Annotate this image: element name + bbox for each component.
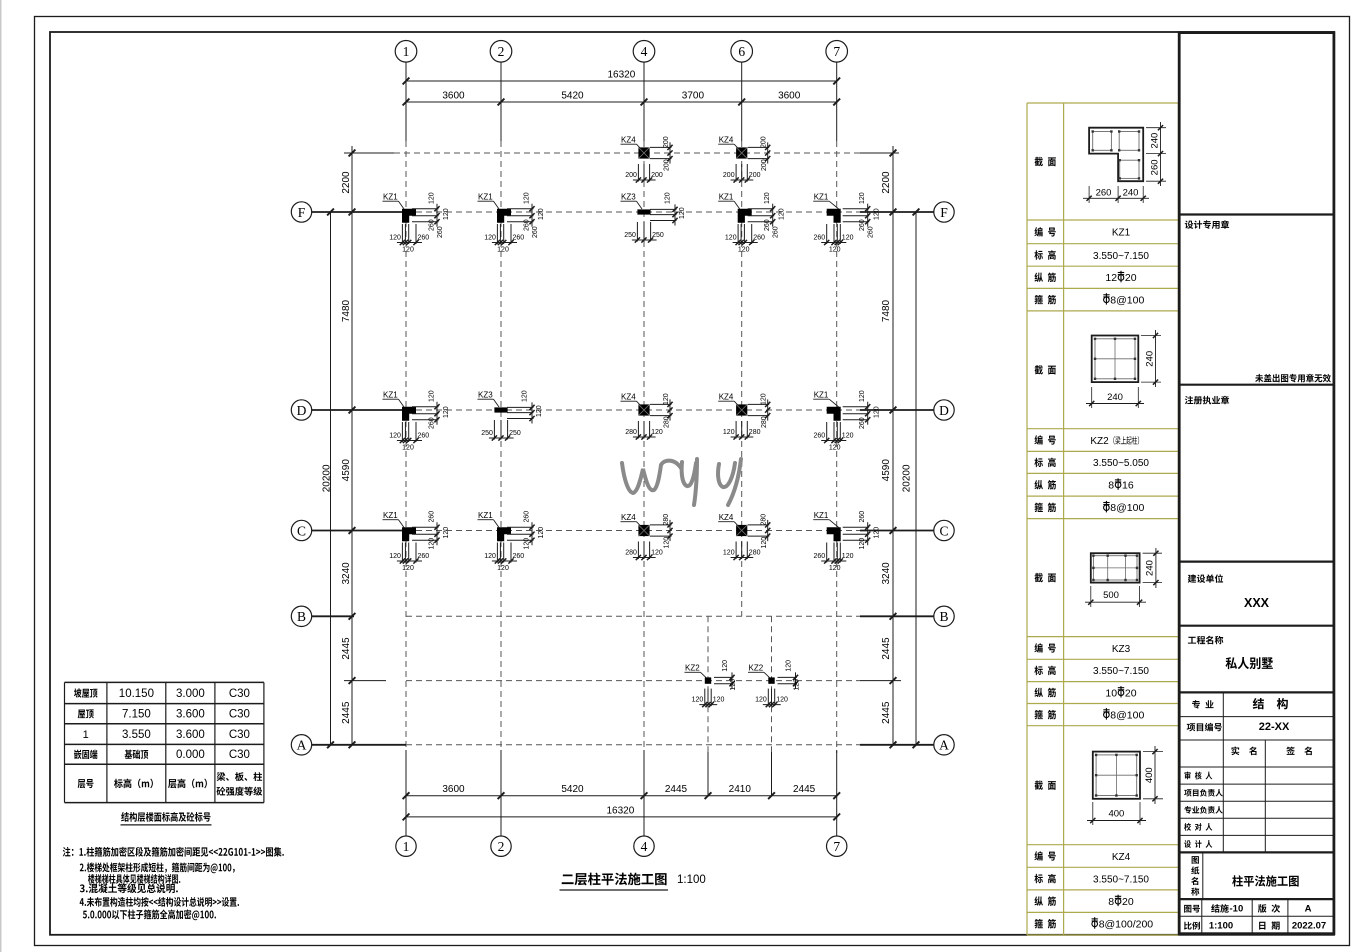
svg-text:120: 120 bbox=[794, 679, 801, 691]
svg-text:120: 120 bbox=[522, 390, 529, 402]
svg-text:260: 260 bbox=[859, 511, 866, 523]
label 审核人 bbox=[1185, 772, 1213, 780]
svg-text:KZ1: KZ1 bbox=[383, 193, 398, 202]
svg-text:KZ2: KZ2 bbox=[1090, 436, 1109, 447]
svg-text:120: 120 bbox=[829, 565, 841, 572]
svg-text:2445: 2445 bbox=[793, 784, 816, 795]
levels table header row bbox=[78, 772, 263, 796]
axis bubble D left bbox=[291, 400, 311, 420]
svg-text:1: 1 bbox=[403, 44, 410, 59]
svg-text:120: 120 bbox=[402, 445, 414, 452]
svg-text:120: 120 bbox=[484, 553, 496, 560]
svg-text:20: 20 bbox=[1125, 272, 1137, 284]
svg-text:260: 260 bbox=[1096, 187, 1112, 198]
column KZ4 top/6 bbox=[718, 136, 770, 183]
axis bubble A right bbox=[934, 735, 954, 755]
label 项目负责人 bbox=[1184, 789, 1223, 797]
svg-text:2022.07: 2022.07 bbox=[1292, 921, 1326, 932]
svg-text:120: 120 bbox=[859, 192, 866, 204]
svg-text:1:100: 1:100 bbox=[677, 874, 706, 886]
svg-text:3.000: 3.000 bbox=[176, 688, 205, 700]
svg-text:260: 260 bbox=[859, 417, 866, 429]
note line 5 bbox=[80, 897, 239, 907]
svg-text:260: 260 bbox=[429, 417, 436, 429]
svg-text:240: 240 bbox=[1145, 560, 1156, 576]
svg-text:KZ3: KZ3 bbox=[478, 391, 493, 400]
svg-text:2445: 2445 bbox=[881, 637, 892, 660]
svg-text:500: 500 bbox=[1103, 590, 1119, 601]
svg-text:KZ1: KZ1 bbox=[814, 511, 829, 520]
svg-text:C: C bbox=[297, 523, 306, 538]
label 日期 bbox=[1259, 921, 1280, 929]
svg-text:260: 260 bbox=[814, 553, 826, 560]
axis bubble 1 top bbox=[395, 41, 417, 63]
svg-text:C30: C30 bbox=[229, 729, 250, 741]
svg-text:280: 280 bbox=[663, 514, 670, 526]
levels table grid bbox=[65, 682, 264, 802]
column KZ2 row/right bbox=[748, 660, 801, 707]
svg-text:12: 12 bbox=[1105, 272, 1117, 284]
horizontal axis D line bbox=[312, 409, 934, 411]
column KZ4 C/6 bbox=[718, 513, 770, 560]
column KZ4 C/4 bbox=[621, 513, 673, 560]
vertical axis 6 line bbox=[741, 62, 743, 616]
watermark wyy bbox=[622, 459, 741, 505]
svg-text:280: 280 bbox=[749, 550, 761, 557]
label 图纸名称 vertical bbox=[1191, 856, 1199, 895]
svg-text:120: 120 bbox=[842, 553, 854, 560]
svg-text:3240: 3240 bbox=[341, 562, 352, 585]
svg-text:KZ1: KZ1 bbox=[383, 511, 398, 520]
levels table caption bbox=[121, 812, 212, 825]
svg-text:16320: 16320 bbox=[606, 805, 634, 816]
vertical axis 1 line bbox=[405, 62, 407, 836]
svg-text:120: 120 bbox=[651, 429, 663, 436]
svg-text:400: 400 bbox=[1144, 767, 1155, 783]
label 注册执业章 bbox=[1185, 396, 1229, 405]
svg-text:250: 250 bbox=[652, 232, 664, 239]
svg-text:120: 120 bbox=[829, 445, 841, 452]
top overall dimension 16320 bbox=[403, 70, 840, 85]
svg-text:KZ3: KZ3 bbox=[621, 193, 636, 202]
value 22-XX bbox=[1259, 721, 1290, 733]
svg-text:7: 7 bbox=[833, 839, 840, 854]
svg-text:3.550~7.150: 3.550~7.150 bbox=[1093, 666, 1149, 677]
svg-text:120: 120 bbox=[874, 208, 881, 220]
svg-text:C: C bbox=[939, 523, 948, 538]
svg-text:2200: 2200 bbox=[341, 171, 352, 194]
svg-text:KZ4: KZ4 bbox=[621, 393, 636, 402]
svg-text:4590: 4590 bbox=[341, 459, 352, 482]
svg-text:22-XX: 22-XX bbox=[1259, 721, 1290, 733]
svg-text:KZ2: KZ2 bbox=[749, 664, 764, 673]
levels table row 4 bbox=[74, 749, 250, 761]
value 私人别墅 bbox=[1226, 657, 1273, 669]
svg-text:120: 120 bbox=[443, 527, 450, 539]
column schedule grid bbox=[1027, 103, 1178, 935]
svg-text:KZ1: KZ1 bbox=[478, 511, 493, 520]
svg-text:260: 260 bbox=[532, 226, 539, 238]
section KZ1 (L-shape) bbox=[1083, 122, 1166, 203]
svg-text:4590: 4590 bbox=[881, 459, 892, 482]
value 1:100 bbox=[1209, 921, 1233, 932]
header 实名 bbox=[1231, 747, 1256, 756]
axis bubble 2 bottom bbox=[491, 836, 511, 856]
svg-text:120: 120 bbox=[389, 235, 401, 242]
svg-text:120: 120 bbox=[738, 247, 750, 254]
svg-text:A: A bbox=[297, 738, 307, 753]
value XXX bbox=[1244, 596, 1270, 610]
top segment dimension line bbox=[403, 91, 840, 106]
svg-text:2410: 2410 bbox=[729, 784, 752, 795]
svg-text:240: 240 bbox=[1123, 187, 1139, 198]
svg-text:260: 260 bbox=[429, 219, 436, 231]
svg-text:A: A bbox=[939, 738, 949, 753]
svg-text:KZ2: KZ2 bbox=[685, 664, 700, 673]
svg-text:KZ1: KZ1 bbox=[814, 193, 829, 202]
note line 6 bbox=[83, 909, 216, 920]
svg-text:260: 260 bbox=[429, 511, 436, 523]
title block thick dividers bbox=[1179, 215, 1334, 900]
svg-text:200: 200 bbox=[723, 172, 735, 179]
vertical axis line KZ2-left bbox=[707, 616, 709, 795]
svg-text:C30: C30 bbox=[229, 709, 250, 721]
svg-text:120: 120 bbox=[723, 550, 735, 557]
left screen edge strip bbox=[0, 0, 2, 952]
value 结构 bbox=[1253, 698, 1288, 709]
svg-text:260: 260 bbox=[524, 511, 531, 523]
schedule group 1 values bbox=[1093, 228, 1149, 307]
label 设计人 bbox=[1184, 840, 1212, 848]
svg-text:7480: 7480 bbox=[341, 299, 352, 322]
title block outer frame bbox=[1179, 33, 1334, 934]
label 建设单位 bbox=[1188, 574, 1223, 583]
svg-text:3.550~5.050: 3.550~5.050 bbox=[1093, 458, 1149, 469]
svg-text:240: 240 bbox=[1144, 351, 1155, 367]
svg-text:120: 120 bbox=[859, 390, 866, 402]
label 比例 bbox=[1184, 922, 1200, 930]
svg-text:250: 250 bbox=[481, 430, 493, 437]
svg-text:260: 260 bbox=[859, 219, 866, 231]
axis bubble C left bbox=[291, 520, 311, 540]
svg-text:120: 120 bbox=[524, 538, 531, 550]
column KZ1 D/1 bbox=[383, 390, 451, 451]
svg-text:7: 7 bbox=[833, 44, 840, 59]
axis bubble 4 top bbox=[633, 41, 655, 63]
svg-text:260: 260 bbox=[868, 226, 875, 238]
axis bubble D right bbox=[934, 400, 954, 420]
axis bubble F right bbox=[934, 202, 954, 222]
svg-text:8@100: 8@100 bbox=[1110, 502, 1144, 514]
value 结施-10 bbox=[1211, 904, 1243, 915]
svg-text:2445: 2445 bbox=[341, 637, 352, 660]
svg-text:F: F bbox=[298, 205, 306, 220]
svg-text:120: 120 bbox=[429, 390, 436, 402]
column KZ1 D/7 bbox=[813, 390, 881, 451]
label 设计专用章 bbox=[1185, 220, 1229, 229]
svg-text:3.550~7.150: 3.550~7.150 bbox=[1093, 251, 1149, 262]
axis bubble 6 top bbox=[731, 41, 753, 63]
svg-text:120: 120 bbox=[874, 527, 881, 539]
section KZ3 (rect 500x240) bbox=[1085, 548, 1162, 607]
column KZ4 top/4 bbox=[621, 136, 673, 183]
svg-text:8: 8 bbox=[1108, 896, 1114, 908]
svg-text:3600: 3600 bbox=[778, 91, 801, 102]
svg-text:3.600: 3.600 bbox=[176, 709, 205, 721]
column KZ4 D/6 bbox=[718, 393, 770, 440]
svg-text:120: 120 bbox=[764, 192, 771, 204]
note line 1 bbox=[63, 847, 284, 857]
svg-text:120: 120 bbox=[497, 565, 509, 572]
svg-text:260: 260 bbox=[418, 235, 430, 242]
svg-text:120: 120 bbox=[389, 433, 401, 440]
note line 3 bbox=[88, 874, 180, 884]
axis bubble B right bbox=[934, 606, 954, 626]
note line 4 bbox=[80, 883, 178, 893]
svg-text:2445: 2445 bbox=[341, 701, 352, 724]
horizontal axis C line bbox=[312, 530, 934, 532]
column KZ3 F/4 bbox=[621, 192, 687, 242]
left dimension chain line bbox=[341, 146, 356, 748]
svg-text:1: 1 bbox=[83, 729, 89, 741]
svg-text:120: 120 bbox=[538, 527, 545, 539]
svg-text:120: 120 bbox=[730, 679, 737, 691]
svg-text:3600: 3600 bbox=[442, 91, 465, 102]
svg-text:2: 2 bbox=[498, 839, 505, 854]
svg-text:280: 280 bbox=[761, 514, 768, 526]
svg-text:200: 200 bbox=[664, 159, 671, 171]
svg-text:260: 260 bbox=[773, 226, 780, 238]
svg-text:C30: C30 bbox=[229, 749, 250, 761]
svg-text:120: 120 bbox=[538, 208, 545, 220]
svg-text:200: 200 bbox=[749, 172, 761, 179]
svg-text:260: 260 bbox=[437, 226, 444, 238]
svg-text:10.150: 10.150 bbox=[119, 688, 154, 700]
schedule group 2 values bbox=[1090, 436, 1149, 514]
axis bubble F left bbox=[291, 202, 311, 222]
plan title bbox=[560, 873, 706, 890]
svg-text:KZ4: KZ4 bbox=[621, 513, 636, 522]
svg-text:1:100: 1:100 bbox=[1209, 921, 1233, 932]
header 签名 bbox=[1286, 747, 1312, 756]
axis bubble A left bbox=[291, 735, 311, 755]
vertical axis 7 line bbox=[836, 62, 838, 836]
column KZ3 D/2 bbox=[478, 390, 544, 440]
section KZ2 (square 240) bbox=[1086, 330, 1161, 408]
svg-text:120: 120 bbox=[429, 538, 436, 550]
column KZ2 row/left bbox=[685, 660, 738, 707]
svg-text:200: 200 bbox=[761, 136, 768, 148]
svg-text:20: 20 bbox=[1122, 896, 1134, 908]
svg-text:KZ1: KZ1 bbox=[478, 193, 493, 202]
svg-text:3600: 3600 bbox=[442, 784, 465, 795]
svg-text:260: 260 bbox=[513, 553, 525, 560]
label 版次 bbox=[1258, 904, 1280, 913]
svg-text:KZ4: KZ4 bbox=[719, 393, 734, 402]
axis bubble 7 top bbox=[826, 41, 848, 63]
svg-text:1: 1 bbox=[403, 839, 410, 854]
schedule group 1 labels bbox=[1034, 157, 1055, 305]
horizontal axis A line bbox=[312, 744, 934, 746]
svg-text:260: 260 bbox=[524, 219, 531, 231]
schedule group 4 labels bbox=[1034, 781, 1055, 929]
top auxiliary dashed row bbox=[344, 152, 899, 154]
column KZ1 F/2 bbox=[478, 192, 546, 253]
svg-text:5420: 5420 bbox=[561, 784, 584, 795]
column KZ1 C/7 bbox=[813, 511, 881, 572]
svg-text:280: 280 bbox=[625, 429, 637, 436]
svg-text:120: 120 bbox=[443, 208, 450, 220]
svg-text:3.550~7.150: 3.550~7.150 bbox=[1093, 874, 1149, 885]
svg-text:120: 120 bbox=[651, 550, 663, 557]
svg-text:7480: 7480 bbox=[881, 299, 892, 322]
svg-text:120: 120 bbox=[829, 247, 841, 254]
axis bubble 4 bottom bbox=[634, 836, 654, 856]
svg-text:2445: 2445 bbox=[665, 784, 688, 795]
svg-text:10: 10 bbox=[1105, 687, 1117, 699]
axis bubble 7 bottom bbox=[827, 836, 847, 856]
column KZ1 C/1 bbox=[383, 511, 451, 572]
note line 2 bbox=[80, 862, 235, 873]
svg-text:KZ3: KZ3 bbox=[1112, 644, 1131, 655]
horizontal axis B line bbox=[312, 615, 934, 617]
svg-text:260: 260 bbox=[1149, 159, 1160, 175]
svg-text:260: 260 bbox=[764, 219, 771, 231]
bottom overall dimension 16320 bbox=[403, 805, 840, 820]
svg-text:280: 280 bbox=[749, 429, 761, 436]
svg-text:20: 20 bbox=[1125, 687, 1137, 699]
right overall dimension 20200 bbox=[902, 209, 920, 749]
svg-text:120: 120 bbox=[536, 405, 543, 417]
svg-text:120: 120 bbox=[429, 192, 436, 204]
column KZ1 F/6 bbox=[718, 192, 786, 253]
svg-text:280: 280 bbox=[625, 550, 637, 557]
value 2022.07 bbox=[1292, 921, 1326, 932]
svg-text:120: 120 bbox=[663, 393, 670, 405]
svg-text:3.600: 3.600 bbox=[176, 729, 205, 741]
svg-text:4: 4 bbox=[641, 44, 648, 59]
svg-text:120: 120 bbox=[842, 235, 854, 242]
svg-text:120: 120 bbox=[723, 429, 735, 436]
title block thin row lines bbox=[1179, 692, 1334, 933]
svg-text:B: B bbox=[297, 609, 306, 624]
svg-text:2: 2 bbox=[498, 44, 505, 59]
svg-text:XXX: XXX bbox=[1244, 596, 1270, 610]
column KZ1 C/2 bbox=[478, 511, 546, 572]
section KZ4 (square 400) bbox=[1087, 746, 1163, 825]
svg-text:120: 120 bbox=[665, 192, 672, 204]
svg-text:F: F bbox=[940, 205, 948, 220]
levels table row 1 bbox=[74, 688, 250, 700]
svg-text:3700: 3700 bbox=[682, 91, 705, 102]
left overall dimension 20200 bbox=[322, 209, 334, 749]
svg-text:8@100/200: 8@100/200 bbox=[1099, 919, 1154, 931]
svg-text:280: 280 bbox=[761, 416, 768, 428]
schedule group 3 values bbox=[1093, 644, 1149, 722]
svg-text:260: 260 bbox=[513, 235, 525, 242]
svg-text:KZ1: KZ1 bbox=[719, 193, 734, 202]
svg-text:250: 250 bbox=[624, 232, 636, 239]
svg-text:KZ1: KZ1 bbox=[1112, 228, 1131, 239]
svg-text:120: 120 bbox=[755, 697, 767, 704]
svg-text:KZ1: KZ1 bbox=[814, 391, 829, 400]
svg-text:120: 120 bbox=[679, 207, 686, 219]
svg-text:200: 200 bbox=[761, 159, 768, 171]
schedule group 4 values bbox=[1092, 852, 1154, 931]
svg-text:240: 240 bbox=[1149, 133, 1160, 149]
bottom segment dimension line bbox=[403, 784, 840, 799]
svg-text:120: 120 bbox=[524, 192, 531, 204]
axis bubble 2 top bbox=[490, 41, 512, 63]
svg-text:KZ4: KZ4 bbox=[719, 136, 734, 145]
levels table row 3 bbox=[83, 729, 250, 741]
svg-text:200: 200 bbox=[663, 136, 670, 148]
svg-text:120: 120 bbox=[722, 660, 729, 672]
column KZ1 F/1 bbox=[383, 192, 451, 253]
svg-text:120: 120 bbox=[443, 406, 450, 418]
svg-text:120: 120 bbox=[761, 537, 768, 549]
vertical axis 2 line bbox=[500, 62, 502, 836]
svg-text:KZ4: KZ4 bbox=[719, 513, 734, 522]
svg-text:7.150: 7.150 bbox=[122, 709, 151, 721]
svg-text:D: D bbox=[297, 403, 307, 418]
svg-text:C30: C30 bbox=[229, 688, 250, 700]
svg-text:-10: -10 bbox=[1230, 904, 1244, 915]
horizontal axis F line bbox=[312, 211, 934, 213]
svg-text:3.550: 3.550 bbox=[122, 729, 151, 741]
schedule group 3 labels bbox=[1034, 573, 1055, 719]
svg-text:250: 250 bbox=[509, 430, 521, 437]
svg-text:120: 120 bbox=[484, 235, 496, 242]
svg-text:2445: 2445 bbox=[881, 701, 892, 724]
svg-text:120: 120 bbox=[497, 247, 509, 254]
axis bubble B left bbox=[291, 606, 311, 626]
KZ2 auxiliary dashed row bbox=[344, 680, 901, 682]
value 柱平法施工图 bbox=[1232, 875, 1298, 886]
column KZ1 F/7 bbox=[813, 192, 881, 253]
svg-text:120: 120 bbox=[389, 553, 401, 560]
axis bubble C right bbox=[934, 520, 954, 540]
label 专业负责人 bbox=[1184, 806, 1222, 814]
svg-text:D: D bbox=[939, 403, 949, 418]
svg-text:4: 4 bbox=[641, 839, 648, 854]
svg-text:120: 120 bbox=[692, 697, 704, 704]
schedule group 2 labels bbox=[1034, 365, 1055, 512]
right dimension chain line bbox=[881, 146, 896, 748]
svg-text:120: 120 bbox=[776, 697, 788, 704]
svg-text:16320: 16320 bbox=[607, 70, 635, 81]
svg-text:200: 200 bbox=[625, 172, 637, 179]
svg-text:A: A bbox=[1305, 904, 1312, 915]
svg-text:2200: 2200 bbox=[881, 171, 892, 194]
value A bbox=[1305, 904, 1312, 915]
svg-text:B: B bbox=[939, 609, 948, 624]
label 专业 bbox=[1192, 700, 1214, 709]
svg-text:8@100: 8@100 bbox=[1110, 294, 1144, 306]
label 未盖出图专用章无效 bbox=[1255, 374, 1331, 383]
svg-text:6: 6 bbox=[738, 44, 745, 59]
svg-text:0.000: 0.000 bbox=[176, 749, 205, 761]
svg-text:260: 260 bbox=[814, 235, 826, 242]
svg-text:KZ1: KZ1 bbox=[383, 391, 398, 400]
axis bubble 1 bottom bbox=[396, 836, 416, 856]
svg-text:120: 120 bbox=[664, 537, 671, 549]
label 项目编号 bbox=[1187, 723, 1222, 732]
svg-text:240: 240 bbox=[1107, 392, 1123, 403]
svg-text:280: 280 bbox=[664, 416, 671, 428]
svg-text:8@100: 8@100 bbox=[1110, 709, 1144, 721]
label 工程名称 bbox=[1188, 636, 1223, 645]
